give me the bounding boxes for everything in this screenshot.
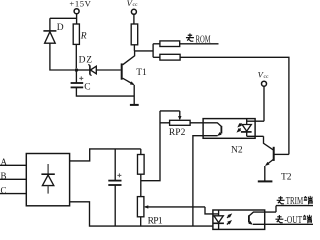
label 去TRIM端 xyxy=(277,196,313,207)
terminal Vcc top xyxy=(131,9,136,24)
wire input A xyxy=(0,164,26,166)
svg-text:TRIM: TRIM xyxy=(286,196,303,207)
svg-text:T1: T1 xyxy=(136,68,147,78)
terminal Vcc right xyxy=(247,81,267,121)
potentiometer RP1 xyxy=(137,197,218,227)
capacitor C2 filter xyxy=(108,149,121,226)
resistor R2 xyxy=(131,24,138,51)
diode D xyxy=(43,31,74,70)
resistor R4 xyxy=(153,54,180,60)
svg-text:cc: cc xyxy=(133,2,138,8)
capacitor C xyxy=(71,70,135,96)
bridge diode xyxy=(41,164,54,194)
ground T1 xyxy=(130,104,139,106)
N1 light arrows xyxy=(227,212,234,225)
N2 light arrows xyxy=(235,123,242,134)
svg-text:D: D xyxy=(57,23,64,33)
transistor T2 xyxy=(264,136,289,181)
node junction dot xyxy=(75,68,79,72)
wire bridge to bottom rail xyxy=(70,202,213,226)
wire R4 to T2 base xyxy=(180,57,289,154)
potentiometer RP2 xyxy=(160,111,203,125)
label 去-OUT端 xyxy=(275,215,311,226)
label Vcc top xyxy=(127,0,138,8)
wire to ROM xyxy=(180,43,219,45)
wire TRIM xyxy=(276,205,313,207)
svg-text:+15V: +15V xyxy=(69,0,91,9)
svg-text:ROM: ROM xyxy=(196,34,211,45)
svg-text:R: R xyxy=(80,31,87,41)
N1 phototransistor xyxy=(248,206,313,226)
wire bridge to top rail xyxy=(70,149,141,161)
svg-text:DZ: DZ xyxy=(79,56,93,66)
label Vcc right xyxy=(258,70,269,80)
wire collector junction xyxy=(134,44,153,58)
resistor R xyxy=(73,24,79,68)
N2 phototransistor xyxy=(193,123,222,226)
wire branch to RP2 xyxy=(141,111,160,181)
resistor R3 xyxy=(153,41,180,47)
label 去ROM xyxy=(186,34,211,46)
svg-text:-OUT: -OUT xyxy=(284,215,302,226)
N1 LED xyxy=(214,210,224,229)
optocoupler N2 box xyxy=(203,119,255,139)
svg-text:T2: T2 xyxy=(281,172,292,182)
wire input C xyxy=(0,193,26,195)
wire input B xyxy=(0,178,26,180)
resistor R5 xyxy=(138,149,145,197)
bridge rectifier box xyxy=(26,154,69,206)
svg-text:RP1: RP1 xyxy=(148,216,163,226)
N2 LED xyxy=(241,119,264,137)
zener diode DZ xyxy=(76,65,120,76)
svg-text:cc: cc xyxy=(264,74,269,80)
svg-text:N2: N2 xyxy=(231,146,243,156)
terminal +15V xyxy=(50,9,79,31)
optocoupler N1 box xyxy=(213,210,265,229)
transistor T1 xyxy=(122,51,136,105)
svg-text:C: C xyxy=(84,82,90,92)
ground T2 xyxy=(258,180,273,182)
svg-text:RP2: RP2 xyxy=(169,128,186,138)
